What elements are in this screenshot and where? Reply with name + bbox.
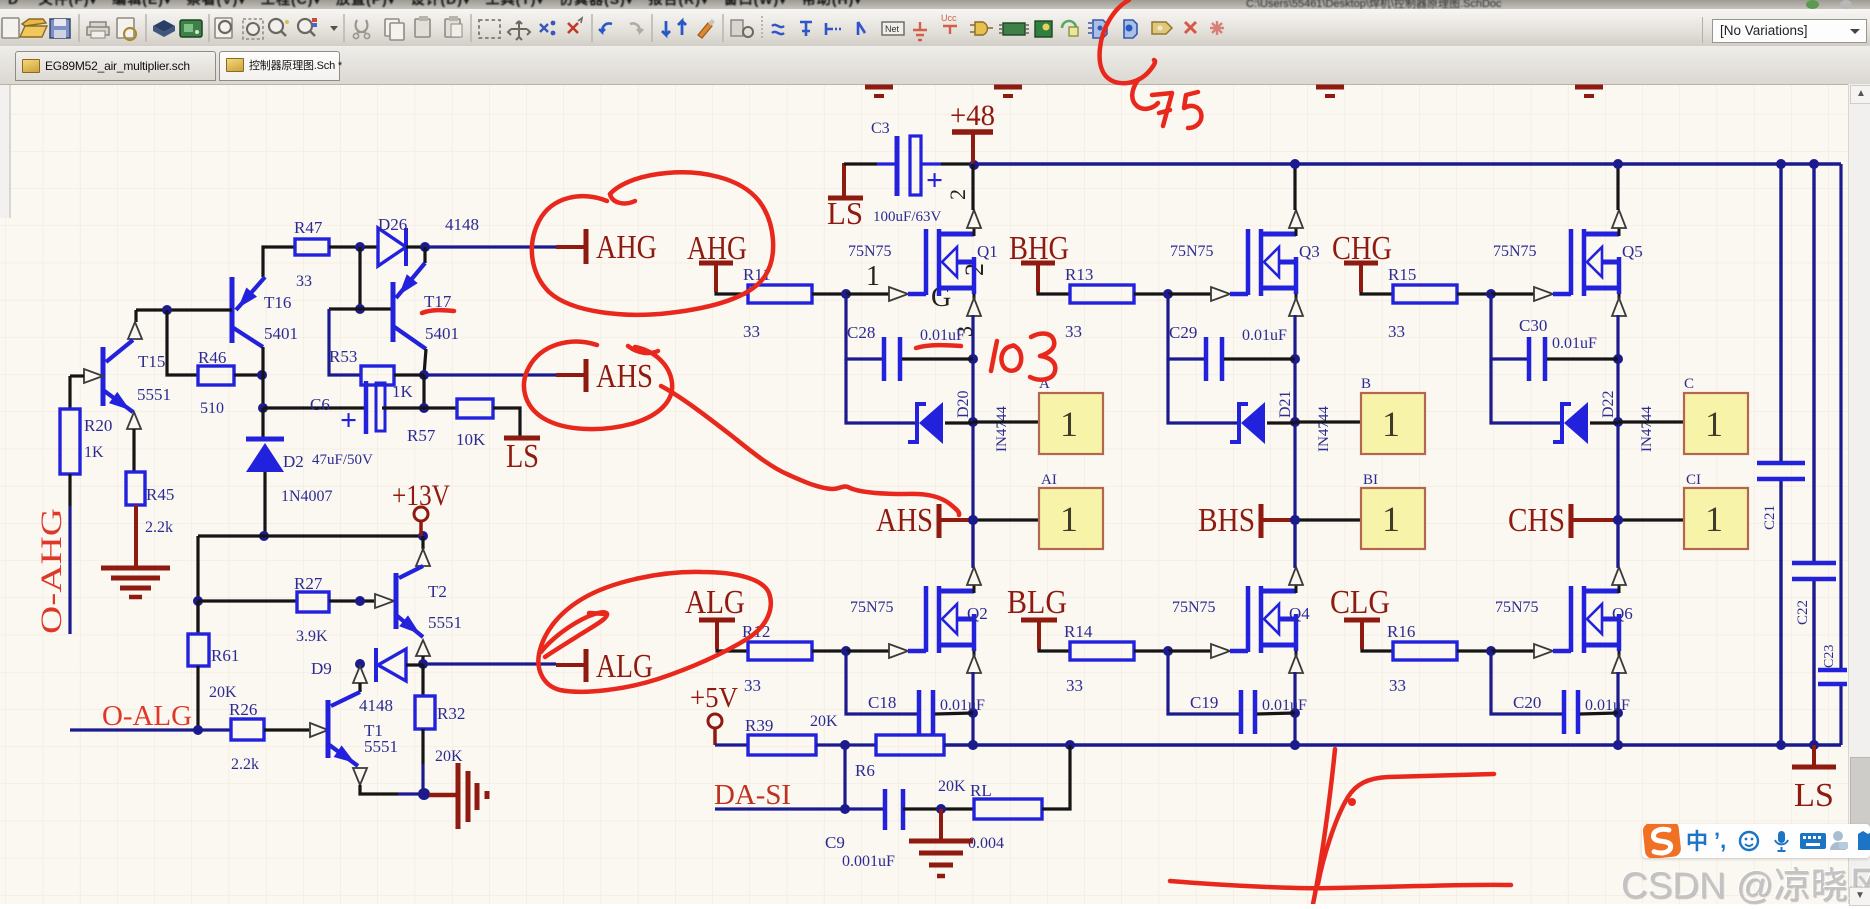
zener diode D20 IN4744 bbox=[908, 404, 926, 442]
wire source column Q5 bbox=[1616, 315, 1619, 568]
wire D26 node down to T17 base rail bbox=[358, 247, 361, 309]
gate pin arrow Q5 bbox=[1491, 292, 1534, 295]
node top bus junctions bbox=[1290, 159, 1300, 169]
svg-text:75N75: 75N75 bbox=[1495, 599, 1539, 616]
wire R11 to gate node bbox=[812, 292, 846, 295]
wire R27 rail bbox=[198, 599, 297, 602]
wire vertical bus C21 bbox=[1779, 164, 1782, 461]
resistor R11 33 bbox=[748, 285, 812, 303]
svg-text:R13: R13 bbox=[1065, 265, 1093, 284]
power LS (top, near C3) bbox=[842, 163, 846, 196]
svg-text:47uF/50V: 47uF/50V bbox=[312, 452, 373, 468]
diode D26 4148 bbox=[378, 228, 406, 266]
svg-text:IN4744: IN4744 bbox=[1316, 406, 1332, 452]
svg-text:D20: D20 bbox=[955, 390, 972, 418]
wire R61 to O-ALG rail bbox=[196, 666, 199, 730]
svg-text:D2: D2 bbox=[283, 452, 304, 471]
wire to ground bbox=[429, 793, 456, 798]
CSDN watermark bbox=[1621, 855, 1870, 909]
node junction R47/D26 bbox=[355, 242, 365, 252]
svg-text:10K: 10K bbox=[456, 430, 486, 449]
svg-text:3.9K: 3.9K bbox=[296, 628, 328, 645]
svg-text:1: 1 bbox=[1060, 404, 1078, 444]
svg-text:C21: C21 bbox=[1762, 505, 1778, 530]
capacitor C18 0.01uF bbox=[917, 690, 922, 734]
svg-text:C29: C29 bbox=[1169, 323, 1197, 342]
menu bar (cut off) bbox=[0, 0, 1870, 9]
wire R61 column bbox=[196, 601, 199, 634]
svg-text:R45: R45 bbox=[146, 485, 174, 504]
resistor R26 2.2k bbox=[231, 719, 264, 740]
wire to AHS label bbox=[424, 373, 556, 376]
svg-text:T15: T15 bbox=[138, 352, 165, 371]
wire gate node down to C19 bbox=[1168, 651, 1239, 714]
svg-text:Q4: Q4 bbox=[1289, 604, 1310, 623]
transistor T16 5401 bbox=[230, 277, 235, 343]
wire rail corner down to R53 bbox=[329, 309, 361, 375]
wire C3 to +48 node bbox=[921, 162, 941, 165]
wire T17 base rail bbox=[329, 307, 393, 310]
wire D26 to AHG label bbox=[406, 245, 425, 248]
wire R16 to gate node bbox=[1457, 649, 1491, 652]
annotation: ellipse around AHG bbox=[532, 172, 773, 314]
block AI bbox=[1039, 488, 1103, 549]
diode D9 4148 bbox=[355, 659, 365, 669]
svg-text:1: 1 bbox=[1705, 404, 1723, 444]
svg-text:Q2: Q2 bbox=[967, 604, 988, 623]
wire T17 collector down bbox=[424, 349, 426, 375]
svg-text:C9: C9 bbox=[825, 833, 845, 852]
scrollbar bbox=[1848, 84, 1870, 904]
annotation: underline below T17 bbox=[422, 310, 454, 313]
wire rail down left side bbox=[196, 536, 199, 634]
T15 emitter pin arrow bbox=[134, 310, 137, 322]
svg-text:R20: R20 bbox=[84, 416, 112, 435]
svg-text:1K: 1K bbox=[392, 382, 414, 401]
gate pin arrow Q3 bbox=[1168, 292, 1211, 295]
svg-text:R47: R47 bbox=[294, 218, 323, 237]
svg-text:0.01uF: 0.01uF bbox=[1552, 335, 1597, 352]
wire to box B bbox=[1295, 420, 1361, 423]
wire ALG to R12 bbox=[717, 649, 748, 651]
wire R14 to gate node bbox=[1134, 649, 1168, 652]
svg-text:1: 1 bbox=[1060, 499, 1078, 539]
wire to box A bbox=[973, 420, 1039, 423]
resistor R32 20K bbox=[421, 664, 424, 696]
svg-text:75N75: 75N75 bbox=[1170, 243, 1214, 260]
resistor R13 33 bbox=[1070, 285, 1134, 303]
svg-text:CLG: CLG bbox=[1330, 584, 1390, 621]
resistor R47 bbox=[295, 239, 329, 255]
wire gate node down to C29 bbox=[1168, 294, 1206, 359]
wire gate node column to DA-SI rail bbox=[843, 745, 846, 809]
svg-text:+48: +48 bbox=[950, 99, 995, 132]
annotation: squiggle AHS ellipse to AHS node bbox=[661, 386, 959, 515]
svg-text:AHS: AHS bbox=[596, 358, 653, 395]
net label ALG (left) bbox=[584, 649, 589, 682]
svg-text:AHG: AHG bbox=[596, 229, 657, 266]
svg-text:O-AHG: O-AHG bbox=[35, 508, 68, 634]
svg-text:+: + bbox=[926, 164, 943, 197]
svg-text:LS: LS bbox=[506, 438, 539, 475]
svg-text:R32: R32 bbox=[437, 704, 465, 723]
wire +5V to R39 bbox=[715, 743, 748, 746]
svg-text:5551: 5551 bbox=[137, 385, 171, 404]
svg-text:4148: 4148 bbox=[359, 696, 393, 715]
svg-text:4148: 4148 bbox=[445, 215, 479, 234]
wire C19 to source column bbox=[1257, 713, 1295, 714]
wire right edge bus bbox=[1839, 164, 1842, 668]
resistor R46 510 bbox=[198, 366, 234, 385]
wire O-ALG rail bbox=[70, 728, 231, 731]
resistor R14 33 bbox=[1070, 642, 1134, 660]
capacitor C30 0.01uF bbox=[1527, 337, 1532, 381]
wire source Q6 to bottom bus bbox=[1616, 672, 1619, 745]
wire loop down to zener bbox=[1491, 359, 1561, 423]
wire R47 to D26 bbox=[329, 245, 378, 248]
capacitor C22 bbox=[1792, 561, 1836, 566]
resistor R61 20K bbox=[188, 634, 209, 666]
power symbol cut off at canvas top #1 bbox=[865, 85, 893, 90]
T1 emitter pin arrow bbox=[353, 768, 367, 785]
svg-text:2.2k: 2.2k bbox=[231, 756, 259, 773]
svg-text:R61: R61 bbox=[211, 646, 239, 665]
T1 collector pin arrow bbox=[353, 666, 367, 683]
svg-text:ALG: ALG bbox=[685, 584, 745, 621]
wire C6 rail bbox=[263, 406, 364, 409]
transistor T17 5401 bbox=[391, 282, 396, 342]
gate pin arrow Q4 bbox=[1168, 649, 1211, 652]
capacitor C9 0.001uF bbox=[883, 789, 888, 830]
annotation: handwritten 7 bbox=[1152, 93, 1172, 126]
power LS (bottom right) bbox=[1812, 745, 1816, 765]
svg-text:R46: R46 bbox=[198, 348, 226, 367]
svg-text:Q5: Q5 bbox=[1622, 242, 1643, 261]
svg-text:C22: C22 bbox=[1795, 600, 1811, 625]
svg-text:ʼ,: ʼ, bbox=[1714, 828, 1726, 853]
svg-text:CI: CI bbox=[1686, 472, 1701, 488]
wire gate node down to C18 bbox=[846, 651, 917, 714]
resistor R16 33 bbox=[1393, 642, 1457, 660]
svg-text:Q1: Q1 bbox=[977, 242, 998, 261]
resistor R39 20K bbox=[748, 735, 816, 755]
wire R15 to gate node bbox=[1457, 292, 1491, 295]
svg-text:1N4007: 1N4007 bbox=[281, 488, 333, 505]
svg-text:0.001uF: 0.001uF bbox=[842, 853, 895, 870]
svg-text:0.004: 0.004 bbox=[968, 835, 1004, 852]
svg-text:Q6: Q6 bbox=[1612, 604, 1633, 623]
svg-text:510: 510 bbox=[200, 400, 224, 417]
wire gate node down to C30 bbox=[1491, 294, 1529, 359]
wire T16 base node down to R46 bbox=[167, 310, 198, 375]
wire drain Q1 to bus bbox=[971, 164, 974, 210]
wire loop down to zener bbox=[846, 359, 916, 423]
svg-text:DA-SI: DA-SI bbox=[714, 780, 791, 811]
svg-text:100uF/63V: 100uF/63V bbox=[873, 209, 942, 225]
wire AHS node down to C6 rail bbox=[422, 375, 425, 408]
transistor T2 5551 bbox=[421, 536, 424, 549]
wire C28 to source column bbox=[902, 357, 973, 360]
T15 base pin arrow and wire bbox=[84, 369, 103, 383]
svg-text:1: 1 bbox=[866, 261, 880, 292]
wire AHG to R11 bbox=[716, 292, 748, 294]
mosfet Q4 75N75 bbox=[1246, 586, 1251, 652]
wire D2 to +13V rail bbox=[263, 472, 266, 536]
svg-text:C3: C3 bbox=[871, 120, 890, 137]
net label AHS (left) bbox=[584, 359, 589, 392]
capacitor C28 0.01uF bbox=[882, 337, 887, 381]
svg-text:0.01uF: 0.01uF bbox=[940, 697, 985, 714]
svg-text:ALG: ALG bbox=[596, 648, 653, 685]
wire zener to source column bbox=[1590, 421, 1618, 424]
svg-text:C6: C6 bbox=[310, 395, 330, 414]
wire collector to R45 bbox=[132, 429, 135, 472]
wire source column Q3 bbox=[1293, 315, 1296, 568]
capacitor C6 47uF/50V bbox=[364, 381, 369, 434]
sogou input bar bbox=[1642, 824, 1870, 858]
annotation: bottom near-vertical stroke bbox=[1313, 749, 1335, 904]
wire to box C bbox=[1618, 420, 1684, 423]
svg-text:B: B bbox=[1361, 376, 1371, 392]
toolbar bbox=[0, 9, 1870, 47]
svg-text:Q3: Q3 bbox=[1299, 242, 1320, 261]
svg-text:O-ALG: O-ALG bbox=[102, 701, 192, 732]
svg-text:1: 1 bbox=[1382, 404, 1400, 444]
wire to box BI bbox=[1295, 518, 1361, 521]
node D26/T17 junction bbox=[420, 242, 430, 252]
resistor R20 1K bbox=[60, 409, 80, 474]
net stub below R20 (O-AHG) bbox=[68, 474, 71, 506]
wire gate node down to C20 bbox=[1491, 651, 1562, 714]
wire C30 to source column bbox=[1547, 357, 1618, 360]
svg-text:R39: R39 bbox=[745, 716, 773, 735]
zener diode D22 IN4744 bbox=[1553, 404, 1571, 442]
power symbol cut off at canvas top #4 bbox=[1575, 85, 1603, 90]
svg-text:33: 33 bbox=[1389, 676, 1406, 695]
svg-text:+: + bbox=[340, 404, 357, 437]
wire to box CI bbox=[1618, 518, 1684, 521]
gate pin arrow Q2 bbox=[846, 649, 889, 652]
wire C6 to R57 bbox=[382, 406, 424, 409]
wire T16 base rail bbox=[136, 308, 232, 311]
wire top bus bbox=[973, 162, 1841, 166]
svg-text:R57: R57 bbox=[407, 426, 436, 445]
wire R13 to gate node bbox=[1134, 292, 1168, 295]
svg-text:BHS: BHS bbox=[1198, 502, 1255, 539]
capacitor C19 0.01uF bbox=[1239, 690, 1244, 734]
wire gate node down to C28 bbox=[846, 294, 884, 359]
block C bbox=[1684, 393, 1748, 454]
svg-text:R15: R15 bbox=[1388, 265, 1416, 284]
svg-text:R53: R53 bbox=[329, 347, 357, 366]
T15 collector pin arrow bbox=[127, 412, 141, 429]
svg-text:T16: T16 bbox=[264, 293, 291, 312]
wire R39 to R6 bbox=[816, 743, 876, 746]
wire T1 emitter to ground rail bbox=[360, 785, 398, 794]
wire BHG to R13 bbox=[1038, 292, 1070, 294]
wire zener to source column bbox=[945, 421, 973, 424]
svg-text:1: 1 bbox=[1705, 499, 1723, 539]
svg-text:20K: 20K bbox=[209, 684, 237, 701]
resistor R27 3.9K bbox=[297, 592, 329, 612]
capacitor C20 0.01uF bbox=[1562, 690, 1567, 734]
svg-text:IN4744: IN4744 bbox=[994, 406, 1010, 452]
svg-text:75N75: 75N75 bbox=[1172, 599, 1216, 616]
wire RL up to bus bbox=[1042, 745, 1070, 809]
svg-text:1: 1 bbox=[1382, 499, 1400, 539]
svg-text:75N75: 75N75 bbox=[848, 243, 892, 260]
block B bbox=[1361, 393, 1425, 454]
block CI bbox=[1684, 488, 1748, 549]
wire +13V rail bbox=[198, 534, 423, 537]
svg-text:IN4744: IN4744 bbox=[1639, 406, 1655, 452]
wire LS to C3 bbox=[844, 162, 877, 165]
svg-text:C20: C20 bbox=[1513, 693, 1541, 712]
wire drain Q3 to bus bbox=[1293, 164, 1296, 210]
svg-text:0.01uF: 0.01uF bbox=[920, 327, 965, 344]
annotation: underline below 0.01uF bbox=[916, 345, 961, 348]
block BI bbox=[1361, 488, 1425, 549]
svg-text:D26: D26 bbox=[378, 215, 407, 234]
annotation: bottom rising curve bbox=[1318, 774, 1494, 884]
annotation: bottom horizontal stroke bbox=[1170, 881, 1511, 888]
wire to box AI bbox=[973, 518, 1039, 521]
capacitor C21 bbox=[1757, 461, 1805, 466]
svg-text:T2: T2 bbox=[428, 582, 447, 601]
wire zener to source column bbox=[1267, 421, 1295, 424]
svg-text:0.01uF: 0.01uF bbox=[1242, 327, 1287, 344]
svg-text:D9: D9 bbox=[311, 659, 332, 678]
svg-text:33: 33 bbox=[1388, 322, 1405, 341]
svg-text:33: 33 bbox=[296, 273, 312, 290]
svg-text:LS: LS bbox=[827, 195, 863, 231]
wire BLG to R14 bbox=[1039, 649, 1070, 651]
svg-text:C19: C19 bbox=[1190, 693, 1218, 712]
diode D2 1N4007 bbox=[261, 408, 264, 438]
svg-text:D22: D22 bbox=[1600, 390, 1617, 418]
svg-text:D21: D21 bbox=[1277, 390, 1294, 418]
mosfet Q2 75N75 bbox=[924, 586, 929, 652]
ground (earth) below C9 bbox=[909, 839, 973, 844]
power symbol cut off at canvas top #2 bbox=[994, 85, 1022, 90]
svg-text:75N75: 75N75 bbox=[850, 599, 894, 616]
wire CHG to R15 bbox=[1361, 292, 1393, 294]
wire T16 collector down bbox=[261, 347, 264, 408]
power LS (left) bbox=[504, 436, 540, 441]
wire to ground bbox=[939, 809, 943, 839]
svg-text:1K: 1K bbox=[84, 444, 104, 461]
mosfet Q6 75N75 bbox=[1569, 586, 1574, 652]
svg-text:5401: 5401 bbox=[264, 324, 298, 343]
svg-text:0.01uF: 0.01uF bbox=[1262, 697, 1307, 714]
svg-text:2: 2 bbox=[945, 189, 970, 200]
capacitor C29 0.01uF bbox=[1204, 337, 1209, 381]
svg-text:75N75: 75N75 bbox=[1493, 243, 1537, 260]
svg-text:33: 33 bbox=[1065, 322, 1082, 341]
ground (earth, right-facing) bbox=[456, 763, 461, 829]
block A bbox=[1039, 393, 1103, 454]
svg-text:AHS: AHS bbox=[876, 502, 933, 539]
svg-text:CHS: CHS bbox=[1508, 502, 1565, 539]
svg-text:R6: R6 bbox=[855, 761, 875, 780]
wire CLG to R16 bbox=[1362, 649, 1393, 651]
svg-text:R16: R16 bbox=[1387, 622, 1415, 641]
svg-text:+5V: +5V bbox=[690, 683, 738, 714]
wire ALG node to label bbox=[423, 662, 556, 665]
wire drain Q4 bbox=[1293, 520, 1296, 567]
svg-text:33: 33 bbox=[743, 322, 760, 341]
svg-text:AI: AI bbox=[1041, 472, 1057, 488]
wire source Q2 to bottom bus bbox=[971, 672, 974, 745]
resistor R6 20K bbox=[876, 735, 944, 755]
svg-text:R27: R27 bbox=[294, 574, 323, 593]
svg-text:LS: LS bbox=[1794, 777, 1834, 814]
svg-text:R26: R26 bbox=[229, 700, 257, 719]
annotation: ellipse around AHS bbox=[524, 342, 672, 430]
wire C29 to source column bbox=[1224, 357, 1295, 360]
wire DA-SI rail bbox=[715, 807, 883, 810]
resistor RL 0.004 bbox=[974, 799, 1042, 819]
resistor R53 1K bbox=[361, 366, 394, 385]
svg-text:33: 33 bbox=[744, 676, 761, 695]
svg-text:R14: R14 bbox=[1064, 622, 1093, 641]
wire R26 to T1 base bbox=[264, 728, 309, 731]
T2 emitter pin arrow bbox=[416, 640, 430, 656]
transistor T1 5551 bbox=[326, 700, 331, 758]
wire source column Q1 bbox=[971, 315, 974, 568]
svg-text:C28: C28 bbox=[847, 323, 875, 342]
svg-text:20K: 20K bbox=[810, 713, 838, 730]
wire vertical bus C22 bbox=[1812, 164, 1815, 561]
wire R46 to T16 collector bbox=[234, 373, 262, 376]
wire R57 to LS bbox=[493, 408, 520, 436]
mosfet Q5 75N75 bbox=[1569, 229, 1574, 295]
power symbol cut off at canvas top #3 bbox=[1316, 85, 1344, 90]
svg-text:C18: C18 bbox=[868, 693, 896, 712]
wire drain Q2 bbox=[971, 520, 974, 567]
gate pin arrow Q6 bbox=[1491, 649, 1534, 652]
wire R53 to AHS node bbox=[394, 373, 424, 376]
svg-text:中: 中 bbox=[1686, 829, 1708, 854]
wire loop down to zener bbox=[1168, 359, 1238, 423]
annotation: ellipse around ALG bbox=[538, 572, 770, 692]
resistor R15 33 bbox=[1393, 285, 1457, 303]
svg-text:5551: 5551 bbox=[364, 737, 398, 756]
annotation: handwritten 5 bbox=[1184, 92, 1201, 128]
svg-text:2.2k: 2.2k bbox=[145, 519, 173, 536]
tab bar bbox=[0, 46, 1870, 85]
wire D9 to ALG node bbox=[406, 663, 423, 666]
svg-text:C: C bbox=[1684, 376, 1694, 392]
svg-text:0.01uF: 0.01uF bbox=[1585, 697, 1630, 714]
annotation: big C stroke over toolbar bbox=[1100, 0, 1155, 83]
transistor T15 5551 bbox=[101, 347, 106, 406]
annotation: handwritten 103 bbox=[991, 341, 997, 371]
mosfet Q1 75N75 bbox=[924, 229, 929, 295]
net label AHG (left) bbox=[584, 229, 589, 264]
svg-text:C30: C30 bbox=[1519, 316, 1547, 335]
capacitor C23 (right edge) bbox=[1818, 668, 1847, 673]
zener diode D21 IN4744 bbox=[1230, 404, 1248, 442]
wire R47 left to T16 emitter bbox=[263, 247, 295, 277]
gate pin arrow Q1 bbox=[846, 292, 889, 295]
svg-text:33: 33 bbox=[1066, 676, 1083, 695]
ground (earth) under R45 bbox=[101, 566, 170, 571]
resistor R57 10K bbox=[457, 399, 493, 418]
wire drain Q6 bbox=[1616, 520, 1619, 567]
resistor R12 33 bbox=[748, 642, 812, 660]
svg-text:BLG: BLG bbox=[1007, 584, 1067, 621]
